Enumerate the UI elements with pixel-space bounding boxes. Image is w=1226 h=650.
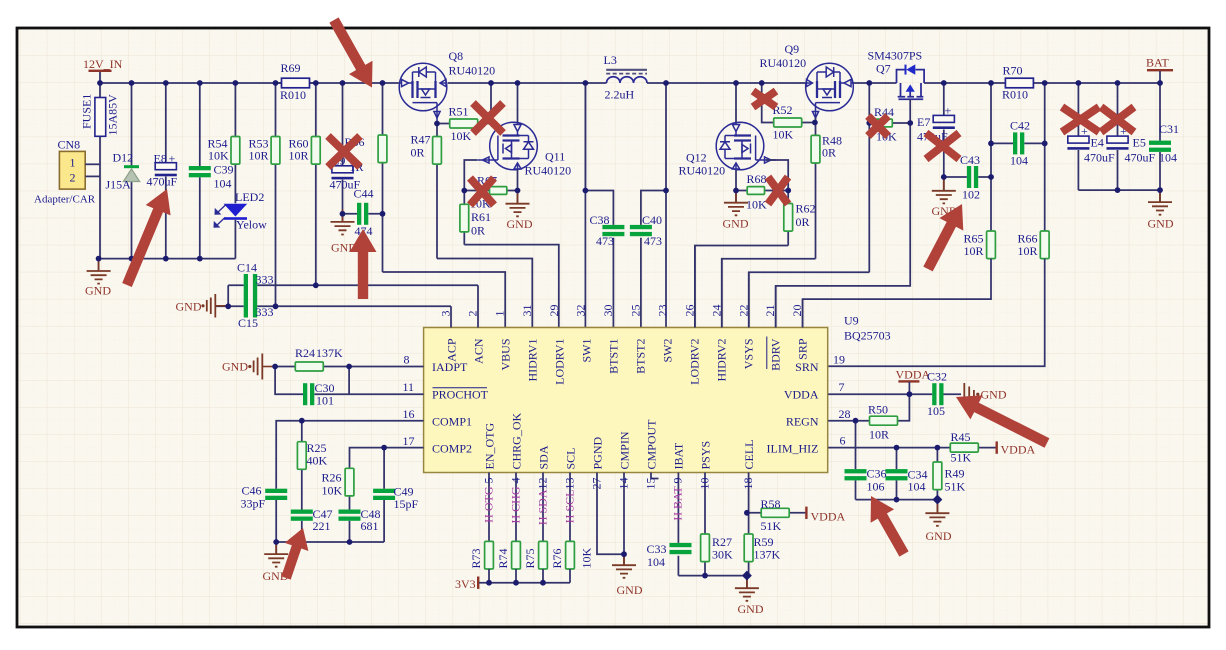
capacitor C14 333: [237, 261, 274, 297]
svg-text:8: 8: [404, 353, 410, 367]
capacitor E4 470uF: [1067, 83, 1115, 190]
svg-text:RU40120: RU40120: [760, 56, 807, 70]
svg-text:470uF: 470uF: [147, 175, 178, 189]
red arrow annotation at C32: [956, 395, 1049, 447]
svg-text:C32: C32: [927, 370, 947, 384]
ground BAT GND: [1148, 190, 1174, 231]
svg-text:51K: 51K: [951, 451, 972, 465]
svg-text:0R: 0R: [822, 146, 836, 160]
resistor R50 10R: [868, 403, 898, 442]
resistor R53 10R: [249, 83, 280, 307]
junction dots R24 C30: [272, 364, 352, 370]
svg-text:RU40120: RU40120: [449, 64, 496, 78]
svg-text:3V3: 3V3: [455, 577, 476, 591]
svg-text:C31: C31: [1159, 122, 1179, 136]
svg-text:18: 18: [741, 478, 755, 490]
svg-text:104: 104: [647, 555, 665, 569]
ground E9/C44 GND: [331, 210, 358, 255]
svg-text:R70: R70: [1003, 64, 1023, 78]
wire Q12 source to gnd junction: [735, 170, 737, 191]
svg-text:23: 23: [656, 305, 670, 317]
resistor R58 51K: [749, 497, 806, 533]
svg-text:333: 333: [256, 273, 274, 287]
svg-text:40K: 40K: [307, 454, 328, 468]
svg-text:C39: C39: [214, 163, 234, 177]
svg-text:GND: GND: [723, 217, 749, 231]
svg-text:CELL: CELL: [742, 440, 756, 470]
svg-text:ACN: ACN: [472, 338, 486, 364]
svg-text:CN8: CN8: [58, 138, 81, 152]
svg-text:104: 104: [908, 480, 926, 494]
svg-text:+: +: [169, 152, 176, 166]
capacitor C32 105: [927, 370, 947, 419]
ground PGND GND: [612, 553, 643, 597]
resistor R74: [496, 541, 520, 582]
svg-text:681: 681: [361, 519, 379, 533]
svg-text:E4: E4: [1091, 136, 1104, 150]
node VDDA port at R58: [805, 507, 845, 524]
svg-text:SW1: SW1: [580, 339, 594, 363]
svg-text:137K: 137K: [316, 346, 343, 360]
svg-text:0R: 0R: [471, 224, 485, 238]
wire COMP ground rail: [276, 541, 384, 543]
resistor R52 10K: [773, 103, 816, 142]
svg-text:GND: GND: [507, 217, 533, 231]
wire Q11 gate to left: [464, 160, 477, 191]
svg-text:E5: E5: [1133, 136, 1146, 150]
svg-text:COMP1: COMP1: [432, 415, 472, 429]
svg-text:H SCL13: H SCL13: [562, 478, 576, 524]
svg-text:19: 19: [833, 353, 845, 367]
svg-text:SCL: SCL: [563, 447, 577, 469]
diode D12: [106, 83, 140, 259]
svg-text:C36: C36: [867, 467, 887, 481]
resistor R51 10K: [437, 83, 491, 143]
svg-text:R76: R76: [550, 548, 564, 568]
svg-text:C43: C43: [960, 153, 980, 167]
svg-text:104: 104: [1159, 151, 1177, 165]
ground Q11 GND: [506, 191, 533, 232]
svg-text:ACP: ACP: [445, 338, 459, 362]
capacitor C34 104: [886, 448, 928, 500]
svg-text:Q11: Q11: [545, 150, 565, 164]
svg-text:10R: 10R: [249, 149, 269, 163]
svg-text:R24: R24: [295, 346, 315, 360]
svg-text:R62: R62: [796, 202, 816, 216]
svg-text:26: 26: [682, 305, 696, 317]
node 3V3 power port and rail: [455, 577, 570, 592]
svg-text:7: 7: [839, 380, 845, 394]
svg-text:C14: C14: [237, 261, 257, 275]
svg-text:10K: 10K: [746, 198, 767, 212]
resistor R47 0R: [411, 124, 442, 259]
svg-text:10K: 10K: [208, 149, 229, 163]
svg-text:IBAT: IBAT: [671, 442, 685, 469]
svg-text:10K: 10K: [580, 548, 594, 569]
svg-text:1: 1: [493, 311, 507, 317]
ground Q12 GND: [723, 190, 749, 230]
svg-text:H OTG 5: H OTG 5: [481, 478, 495, 523]
svg-text:U9: U9: [844, 314, 859, 328]
svg-text:SW2: SW2: [661, 339, 675, 363]
capacitor E9 470uF: [330, 83, 361, 214]
svg-text:GND: GND: [738, 602, 764, 616]
svg-text:473: 473: [644, 234, 662, 248]
svg-text:2: 2: [70, 171, 76, 185]
svg-text:10R: 10R: [289, 149, 309, 163]
svg-text:27: 27: [589, 478, 603, 490]
svg-text:33pF: 33pF: [241, 497, 266, 511]
svg-text:20: 20: [790, 305, 804, 317]
wire ACP net pin3: [215, 305, 451, 307]
BDRV overline: [766, 337, 768, 370]
svg-text:GND: GND: [617, 583, 643, 597]
svg-text:3: 3: [439, 311, 453, 317]
connector CN8: [34, 138, 96, 206]
red X mark over R67: [470, 178, 494, 205]
svg-text:470uF: 470uF: [1084, 151, 1115, 165]
capacitor C15 333: [238, 296, 274, 331]
svg-text:10R: 10R: [1018, 244, 1038, 258]
svg-text:LED2: LED2: [235, 190, 264, 204]
svg-text:15A85V: 15A85V: [106, 94, 120, 136]
wire bus Q7 to BAT: [924, 82, 1160, 84]
svg-text:0R: 0R: [411, 146, 425, 160]
svg-text:15pF: 15pF: [394, 497, 419, 511]
capacitor C49 15pF: [373, 485, 418, 512]
svg-text:IADPT: IADPT: [432, 360, 468, 374]
resistor R26 10K: [322, 468, 354, 497]
junction dots COMP: [273, 418, 387, 545]
wire battery ground rail: [1078, 189, 1160, 191]
svg-text:E8: E8: [154, 152, 167, 166]
svg-text:LODRV2: LODRV2: [688, 339, 702, 385]
capacitor C38 473: [590, 213, 625, 248]
svg-text:R50: R50: [868, 403, 888, 417]
svg-text:L3: L3: [604, 53, 617, 67]
svg-text:R010: R010: [280, 88, 306, 102]
svg-text:C44: C44: [354, 187, 374, 201]
red arrow annotation top at bus: [329, 17, 372, 87]
wire HIDRV2 net R48 to pin24: [722, 259, 816, 328]
capacitor E7 470uF: [917, 83, 955, 177]
resistor R76 10K: [550, 541, 594, 582]
wire SRN net R66 to pin19: [828, 259, 1044, 367]
IC top pin stubs: [451, 246, 803, 328]
svg-text:14: 14: [616, 478, 630, 490]
resistor R56 1R: [345, 83, 387, 272]
svg-text:PGND: PGND: [590, 436, 604, 469]
wire input ground rail: [99, 258, 236, 260]
svg-text:104: 104: [1010, 154, 1028, 168]
svg-text:BDRV: BDRV: [769, 338, 783, 371]
wire PROCHOT/C30 loop: [275, 367, 424, 395]
resistor R45 51K: [950, 430, 978, 465]
svg-text:10R: 10R: [964, 244, 984, 258]
svg-text:51K: 51K: [761, 519, 782, 533]
svg-text:28: 28: [839, 407, 851, 421]
wire REGN to C36: [855, 421, 857, 500]
svg-text:10K: 10K: [451, 129, 472, 143]
wire IBAT rail: [678, 575, 747, 577]
wire Q11 source to gnd junction: [517, 170, 519, 191]
red X mark over E5: [1101, 107, 1134, 132]
svg-text:31: 31: [520, 305, 534, 317]
svg-text:Yelow: Yelow: [236, 218, 267, 232]
svg-text:R010: R010: [1002, 88, 1028, 102]
svg-text:32: 32: [573, 305, 587, 317]
capacitor C42 104: [991, 119, 1045, 168]
ground COMP GND: [263, 542, 289, 583]
svg-text:15: 15: [643, 478, 657, 490]
wire LODRV2 net R62 to pin26: [695, 246, 788, 328]
svg-text:30K: 30K: [712, 548, 733, 562]
IC U9 BQ25703 body: [424, 314, 891, 473]
red X mark over R44: [868, 116, 888, 136]
svg-text:BTST1: BTST1: [607, 339, 621, 374]
svg-text:25: 25: [628, 305, 642, 317]
svg-text:333: 333: [256, 305, 274, 319]
red arrow annotation at C43: [923, 204, 963, 271]
svg-text:R68: R68: [747, 172, 767, 186]
red X mark over R52: [753, 91, 776, 107]
wire LODRV1 net R61 to pin29: [464, 245, 559, 328]
wire Q8 gate to junction: [436, 123, 438, 125]
transistor Q9 RU40120: [760, 42, 854, 123]
svg-text:Q8: Q8: [449, 49, 464, 63]
wire BDRV net Q7 gate to pin21: [776, 123, 911, 328]
svg-text:C40: C40: [642, 213, 662, 227]
resistor R49 51K: [933, 448, 966, 500]
red X mark over E4: [1062, 107, 1099, 132]
wire CN8 pin2 down to ground rail: [85, 175, 100, 177]
ground E7 GND: [932, 177, 958, 218]
svg-text:CMPOUT: CMPOUT: [644, 419, 658, 470]
svg-text:VDDA: VDDA: [1001, 443, 1036, 457]
capacitor E8 470uF: [147, 83, 178, 259]
capacitor C31 104: [1149, 83, 1179, 190]
svg-text:RU40120: RU40120: [525, 164, 572, 178]
svg-text:6: 6: [840, 434, 846, 448]
svg-text:51K: 51K: [945, 480, 966, 494]
svg-text:Adapter/CAR: Adapter/CAR: [34, 194, 96, 206]
wire ILIM_HIZ net pin6: [828, 447, 996, 449]
svg-text:R47: R47: [411, 133, 431, 147]
PROCHOT overline: [433, 387, 488, 389]
svg-text:C46: C46: [242, 484, 262, 498]
svg-text:R58: R58: [761, 497, 781, 511]
wire bus from Q8 to L3: [448, 82, 607, 84]
svg-text:BTST2: BTST2: [634, 339, 648, 374]
svg-text:SDA: SDA: [536, 445, 550, 469]
svg-text:21: 21: [763, 305, 777, 317]
wire IADPT net pin8: [275, 366, 424, 368]
svg-text:470uF: 470uF: [1125, 151, 1156, 165]
svg-text:GND: GND: [222, 360, 248, 374]
ground R49 GND: [925, 500, 951, 543]
svg-text:BAT: BAT: [1146, 56, 1169, 70]
svg-text:R69: R69: [281, 61, 301, 75]
svg-text:E7: E7: [917, 115, 930, 129]
svg-text:Q9: Q9: [785, 42, 800, 56]
junction dots right caps: [941, 141, 1163, 194]
svg-text:VBUS: VBUS: [499, 339, 513, 371]
wire VSYS branch down from bus: [868, 83, 870, 272]
svg-text:30: 30: [601, 305, 615, 317]
svg-text:R73: R73: [469, 548, 483, 568]
svg-text:GND: GND: [926, 529, 952, 543]
svg-text:105: 105: [927, 404, 945, 418]
svg-text:C38: C38: [590, 213, 610, 227]
wire bus Q9 to Q7: [853, 82, 896, 84]
IC left pin names: [432, 360, 489, 456]
svg-text:GND: GND: [981, 388, 1007, 402]
svg-text:221: 221: [313, 519, 331, 533]
wire CN8 pin1 to fuse: [85, 163, 100, 165]
resistor R62 0R: [784, 191, 816, 246]
svg-text:EN_OTG: EN_OTG: [482, 423, 496, 470]
capacitor C40 473: [630, 213, 662, 248]
svg-text:106: 106: [867, 480, 885, 494]
red X mark over R51: [473, 103, 503, 133]
node BAT power port: [1146, 56, 1173, 84]
svg-text:12V_IN: 12V_IN: [83, 57, 123, 71]
capacitor C36 106: [845, 467, 887, 494]
wire Q12 gate to right: [766, 160, 788, 191]
svg-text:10K: 10K: [773, 128, 794, 142]
LED LED2 Yelow: [214, 190, 268, 259]
IC bottom pin names: [482, 412, 756, 469]
transistor Q11 RU40120: [478, 122, 572, 177]
junction dots C38 C40: [583, 188, 669, 194]
wire COMP1 net pin16: [276, 421, 423, 542]
resistor R73: [469, 541, 493, 582]
wire HIDRV1 net R47 to pin31: [437, 259, 532, 328]
svg-text:H BAT 9: H BAT 9: [671, 478, 685, 521]
capacitor C48 681: [339, 507, 381, 533]
resistor R68 10K: [736, 172, 788, 212]
wire COMP2 net pin17: [350, 448, 424, 542]
svg-text:ILIM_HIZ: ILIM_HIZ: [767, 442, 819, 456]
resistor R25 40K: [297, 421, 327, 510]
svg-text:10K: 10K: [322, 484, 343, 498]
junction dots ACP ACN: [225, 282, 318, 309]
junction dots bottom: [486, 510, 752, 586]
wire R52 branch from bus: [762, 83, 774, 123]
svg-text:22: 22: [736, 305, 750, 317]
IC right pin names: [767, 360, 819, 456]
svg-text:101: 101: [316, 394, 334, 408]
red arrow annotation at C47: [281, 528, 308, 580]
capacitor C44 474: [343, 187, 383, 239]
svg-text:1: 1: [70, 156, 76, 170]
wire bus from L3 to Q9: [647, 82, 806, 84]
IC top pin names: [445, 338, 810, 385]
svg-text:0R: 0R: [796, 215, 810, 229]
svg-text:R74: R74: [496, 548, 510, 568]
resistor R48 0R: [811, 123, 842, 259]
red arrow annotation at C44: [350, 229, 377, 299]
red arrow annotation at E8: [122, 189, 170, 287]
svg-text:GND: GND: [176, 300, 202, 314]
svg-text:CHRG_OK: CHRG_OK: [509, 412, 523, 469]
svg-text:24: 24: [709, 305, 723, 317]
red X mark over E9 R56: [328, 136, 360, 167]
IC bottom pin stubs: [489, 473, 749, 576]
ground R24 GND left style: [222, 354, 275, 380]
svg-text:Q12: Q12: [686, 151, 707, 165]
svg-text:PSYS: PSYS: [698, 441, 712, 470]
svg-text:+: +: [945, 104, 952, 118]
red arrow annotation at C36: [871, 496, 909, 557]
transistor Q12 RU40120: [679, 122, 777, 177]
wire VDDA net pin7: [828, 393, 961, 395]
resistor R44 10K: [869, 105, 910, 144]
resistor R66 10R: [1018, 231, 1050, 259]
wire SW2 net pin23: [665, 191, 667, 328]
wire C36 C34 ground rail: [856, 499, 938, 501]
svg-text:SM4307PS: SM4307PS: [868, 49, 923, 63]
svg-text:16: 16: [403, 407, 415, 421]
junction dots gate networks: [434, 120, 913, 194]
red X mark over E7: [926, 133, 959, 159]
svg-text:R45: R45: [951, 430, 971, 444]
wire SRP net R65 to pin20: [803, 259, 991, 328]
svg-text:HIDRV2: HIDRV2: [715, 339, 729, 382]
wire C40 branch: [641, 83, 666, 328]
svg-text:10R: 10R: [869, 428, 889, 442]
svg-text:17: 17: [403, 434, 415, 448]
svg-text:BQ25703: BQ25703: [844, 329, 891, 343]
wire Q12 drain to bus: [735, 83, 737, 122]
fuse FUSE1: [80, 83, 120, 259]
svg-text:RU40120: RU40120: [679, 164, 726, 178]
node 12V_IN power port: [83, 57, 123, 83]
junction dots right network: [853, 391, 943, 504]
svg-text:137K: 137K: [754, 548, 781, 562]
node VDDA port at R45: [996, 441, 1036, 456]
wire main input bus 12V_IN rail: [100, 82, 399, 84]
wire VSYS net to pin22: [749, 272, 870, 327]
transistor Q7 SM4307PS: [868, 49, 925, 124]
node VDDA port above pin7: [896, 368, 931, 395]
svg-text:J15A: J15A: [106, 178, 132, 192]
resistor R75: [523, 541, 547, 582]
red X mark over R68: [768, 177, 788, 204]
junction dots input ground rail: [96, 256, 203, 262]
resistor R69 R010 sense: [276, 61, 316, 102]
svg-text:R51: R51: [449, 105, 469, 119]
wire R65 branch from bus: [990, 83, 992, 231]
svg-text:SRP: SRP: [796, 338, 810, 360]
wire ACN net pin2: [228, 285, 478, 306]
svg-text:LODRV1: LODRV1: [553, 339, 567, 385]
svg-text:D12: D12: [113, 151, 134, 165]
svg-text:SRN: SRN: [795, 360, 819, 374]
svg-text:R75: R75: [523, 548, 537, 568]
wire SW1 net pin32 to bus: [584, 83, 586, 328]
junction dots C44: [340, 211, 386, 217]
svg-text:VSYS: VSYS: [742, 339, 756, 370]
resistor R65 10R: [964, 231, 996, 259]
svg-text:CMPIN: CMPIN: [617, 431, 631, 469]
capacitor C30 101: [303, 381, 335, 408]
svg-text:104: 104: [214, 177, 232, 191]
svg-text:HIDRV1: HIDRV1: [526, 339, 540, 382]
svg-text:29: 29: [547, 305, 561, 317]
capacitor C39 104: [189, 83, 234, 259]
svg-text:COMP2: COMP2: [432, 442, 472, 456]
